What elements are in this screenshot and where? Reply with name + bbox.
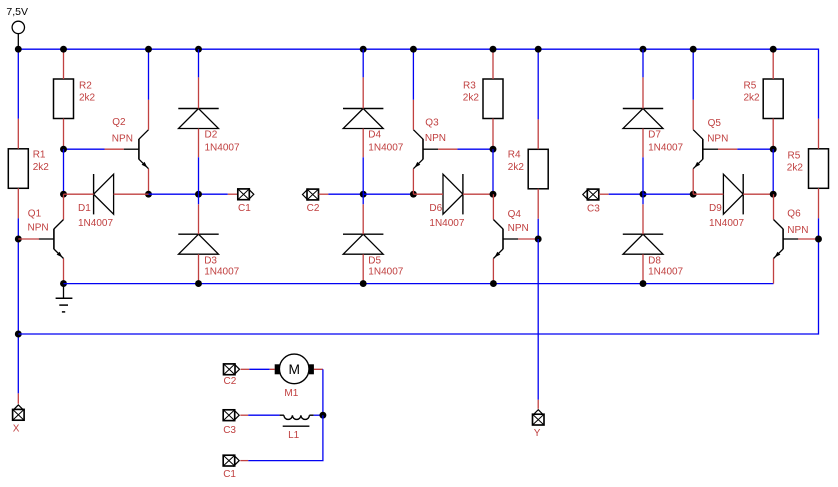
transistor Q3 <box>413 100 457 195</box>
svg-text:R5: R5 <box>744 80 757 91</box>
transistor Q1 <box>18 194 63 283</box>
svg-text:Q2: Q2 <box>112 117 126 128</box>
svg-text:1N4007: 1N4007 <box>204 267 239 278</box>
junction supply on bus <box>15 46 22 53</box>
svg-text:Q1: Q1 <box>28 208 42 219</box>
svg-text:C1: C1 <box>223 469 236 480</box>
svg-text:1N4007: 1N4007 <box>648 142 683 153</box>
wire R4 top to bus <box>537 49 539 119</box>
junction Q4 base node <box>535 236 542 243</box>
svg-text:D3: D3 <box>204 255 217 266</box>
junction node A1 <box>60 191 67 198</box>
svg-text:L1: L1 <box>288 430 300 441</box>
wire D7 anode to node <box>642 157 644 194</box>
diode D5 <box>343 204 404 283</box>
svg-text:D8: D8 <box>648 255 661 266</box>
wire Q3 base to R3 node <box>457 148 493 150</box>
svg-text:NPN: NPN <box>707 133 728 144</box>
wire +7.5V bus <box>18 49 818 119</box>
resistor R5 (upper) <box>744 49 784 149</box>
resistor R4 <box>508 119 548 219</box>
wire ground rail <box>64 283 774 285</box>
diode D7 <box>623 77 684 157</box>
junction R5 top on bus <box>770 46 777 53</box>
junction R2 top on bus <box>60 46 67 53</box>
junction D4/D5 node <box>360 191 367 198</box>
wire R4 bottom to Q4 base node <box>537 219 539 239</box>
junction D9 cathode node <box>770 191 777 198</box>
junction R4 top on bus <box>535 46 542 53</box>
svg-text:R4: R4 <box>508 149 521 160</box>
wire left vertical (bus to R1) <box>17 49 19 119</box>
wire output node 1 row <box>149 193 228 195</box>
junction D2 top on bus <box>195 46 202 53</box>
junction Q4 emitter on rail <box>490 280 497 287</box>
junction Q1 base node <box>15 236 22 243</box>
svg-text:D6: D6 <box>429 203 442 214</box>
wire chain3 vertical <box>772 149 774 194</box>
wire D8 cathode to node <box>642 194 644 204</box>
terminal C1 (upper) <box>228 189 254 214</box>
svg-text:C2: C2 <box>224 376 237 387</box>
svg-text:1N4007: 1N4007 <box>648 267 683 278</box>
svg-text:R3: R3 <box>463 80 476 91</box>
junction D7 top on bus <box>640 46 647 53</box>
wire L1 to node <box>314 414 323 416</box>
wire C2 to motor <box>249 368 269 370</box>
svg-text:1N4007: 1N4007 <box>368 142 403 153</box>
wire net Y vertical <box>537 239 539 400</box>
junction Q3 emitter node <box>410 191 417 198</box>
wire D2 cathode to bus <box>198 49 200 77</box>
svg-text:Y: Y <box>534 428 541 439</box>
svg-text:C3: C3 <box>223 425 236 436</box>
motor M1 <box>270 354 323 399</box>
junction Q2 emitter node <box>145 191 152 198</box>
junction Q5 emitter node <box>690 191 697 198</box>
svg-text:NPN: NPN <box>112 134 133 145</box>
diode D4 <box>343 77 404 157</box>
svg-text:1N4007: 1N4007 <box>368 267 403 278</box>
wire Q2 collector to bus <box>148 49 150 99</box>
wire D5 cathode to node <box>362 194 364 204</box>
svg-text:D9: D9 <box>709 203 722 214</box>
diode D6 <box>413 174 493 229</box>
terminal C2 (lower) <box>224 364 250 387</box>
junction Q6 base node <box>815 236 822 243</box>
svg-text:D2: D2 <box>205 129 218 140</box>
junction node B1 <box>60 146 67 153</box>
terminal C1 (lower) <box>223 455 248 480</box>
terminal C2 (upper) <box>303 189 329 214</box>
resistor R3 <box>463 49 503 149</box>
wire Q3 collector to bus <box>412 49 414 99</box>
junction Q2 collector on bus <box>145 46 152 53</box>
svg-text:NPN: NPN <box>508 223 529 234</box>
terminal C3 (upper) <box>583 189 609 214</box>
svg-text:Q3: Q3 <box>425 118 439 129</box>
svg-text:D1: D1 <box>78 203 91 214</box>
wire chain2 vertical <box>492 149 494 194</box>
svg-text:Q4: Q4 <box>508 209 522 220</box>
svg-text:M1: M1 <box>284 388 298 399</box>
svg-text:M: M <box>288 362 300 377</box>
transistor Q2 <box>105 100 149 195</box>
svg-text:Q5: Q5 <box>708 118 722 129</box>
svg-text:D4: D4 <box>368 129 381 140</box>
wire C3 to D7 node <box>609 193 643 195</box>
transistor Q5 <box>693 100 737 195</box>
svg-text:1N4007: 1N4007 <box>709 218 744 229</box>
terminal X <box>13 393 25 434</box>
wire D4 anode to node <box>362 157 364 194</box>
diode D8 <box>623 204 684 283</box>
svg-text:2k2: 2k2 <box>787 162 804 173</box>
wire node X vertical (R1 to Q1 base to X wire) <box>17 218 19 393</box>
svg-text:1N4007: 1N4007 <box>429 218 464 229</box>
svg-text:2k2: 2k2 <box>463 93 480 104</box>
junction R5 bottom node <box>770 146 777 153</box>
svg-text:NPN: NPN <box>28 223 49 234</box>
svg-text:NPN: NPN <box>787 225 808 236</box>
junction D8 anode on rail <box>640 280 647 287</box>
wire D2 anode to node <box>198 157 200 194</box>
wire D3 cathode to node <box>198 194 200 204</box>
diode D2 <box>178 77 240 157</box>
svg-text:C2: C2 <box>307 203 320 214</box>
svg-text:NPN: NPN <box>425 133 446 144</box>
wire C2 to D4 node <box>328 193 363 195</box>
junction D2/D3 node <box>195 191 202 198</box>
svg-text:R2: R2 <box>79 80 92 91</box>
svg-text:R5: R5 <box>788 150 801 161</box>
wire D4 cathode to bus <box>362 49 364 77</box>
svg-text:X: X <box>13 423 20 434</box>
svg-text:Q6: Q6 <box>787 208 801 219</box>
wire C3 to L1 <box>248 414 279 416</box>
wire node2 to Q3 emitter <box>363 193 413 195</box>
svg-text:D7: D7 <box>648 129 661 140</box>
power supply terminal 7,5V <box>6 6 28 49</box>
svg-text:7,5V: 7,5V <box>6 6 28 18</box>
svg-text:R1: R1 <box>33 149 46 160</box>
junction Q3 collector on bus <box>410 46 417 53</box>
svg-text:2k2: 2k2 <box>744 93 761 104</box>
svg-text:2k2: 2k2 <box>508 162 525 173</box>
junction D5 anode on rail <box>360 280 367 287</box>
resistor R2 <box>54 49 96 149</box>
junction ground rail at Q1 emitter <box>60 280 67 287</box>
junction D4 top on bus <box>360 46 367 53</box>
junction R3 bottom node <box>490 146 497 153</box>
diode D3 <box>178 204 239 283</box>
junction D7/D8 node <box>640 191 647 198</box>
svg-text:D5: D5 <box>368 255 381 266</box>
wire node3 to Q5 emitter <box>643 193 693 195</box>
svg-text:2k2: 2k2 <box>79 93 96 104</box>
junction L1/motor/C1 node <box>319 412 326 419</box>
wire net X horizontal <box>18 218 818 334</box>
terminal Y <box>533 400 545 439</box>
transistor Q4 <box>493 194 538 283</box>
svg-text:2k2: 2k2 <box>33 162 50 173</box>
diode D9 <box>693 174 773 229</box>
svg-text:1N4007: 1N4007 <box>78 218 113 229</box>
diode D1 <box>64 174 149 229</box>
junction D6 cathode node <box>490 191 497 198</box>
wire chain1 B1 to A1 <box>63 149 65 194</box>
junction D3 anode on rail <box>195 280 202 287</box>
junction Q5 collector on bus <box>690 46 697 53</box>
inductor L1 <box>280 415 314 441</box>
svg-text:C3: C3 <box>587 203 600 214</box>
wire node down to C1 <box>248 415 323 460</box>
wire Q5 base to R5 node <box>737 148 773 150</box>
wire motor right to L1 node <box>322 369 324 415</box>
resistor R1 <box>8 119 49 219</box>
transistor Q6 <box>774 194 819 283</box>
wire Q2 base row <box>64 148 105 150</box>
terminal C3 (lower) <box>223 410 248 436</box>
svg-text:C1: C1 <box>238 203 251 214</box>
junction X wire left corner <box>15 331 22 338</box>
junction R3 top on bus <box>490 46 497 53</box>
wire D7 cathode to bus <box>642 49 644 77</box>
svg-text:1N4007: 1N4007 <box>205 142 240 153</box>
ground symbol <box>56 284 73 312</box>
wire Q5 collector to bus <box>692 49 694 99</box>
resistor R5 (right) <box>787 119 829 219</box>
